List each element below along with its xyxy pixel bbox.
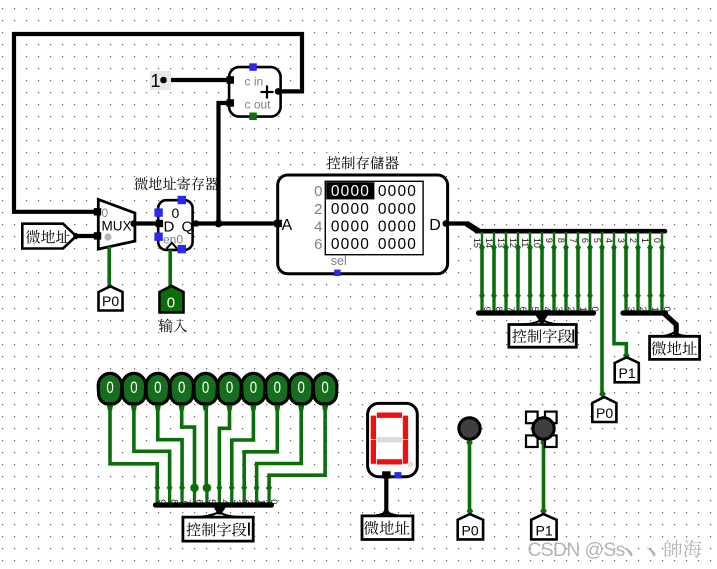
svg-text:0000: 0000: [331, 236, 370, 253]
svg-text:0: 0: [106, 379, 113, 398]
svg-text:0: 0: [314, 183, 322, 200]
svg-text:0: 0: [130, 379, 137, 398]
svg-text:0: 0: [298, 379, 305, 398]
svg-text:0: 0: [202, 379, 209, 398]
svg-text:1: 1: [150, 71, 160, 91]
svg-text:4: 4: [542, 307, 552, 312]
svg-text:1: 1: [640, 238, 650, 243]
svg-text:0000: 0000: [331, 201, 370, 218]
svg-text:3: 3: [616, 238, 626, 243]
svg-text:8: 8: [494, 307, 504, 312]
svg-text:CSDN @Ss: CSDN @Ss: [528, 540, 625, 561]
svg-text:2: 2: [638, 307, 648, 312]
svg-text:6: 6: [518, 307, 528, 312]
svg-text:7: 7: [506, 307, 516, 312]
svg-text:1: 1: [650, 307, 660, 312]
svg-text:0: 0: [226, 379, 233, 398]
svg-text:0000: 0000: [378, 183, 417, 200]
svg-text:0: 0: [321, 379, 328, 398]
svg-text:0: 0: [178, 379, 185, 398]
svg-text:c out: c out: [245, 98, 272, 112]
svg-text:0: 0: [154, 379, 161, 398]
svg-text:P0: P0: [462, 523, 479, 539]
svg-text:4: 4: [314, 219, 322, 236]
svg-text:0000: 0000: [331, 183, 370, 200]
svg-text:0: 0: [662, 307, 672, 312]
svg-text:0: 0: [274, 379, 281, 398]
svg-text:9: 9: [482, 307, 492, 312]
svg-text:Q: Q: [182, 219, 194, 236]
svg-text:0000: 0000: [331, 219, 370, 236]
svg-text:7: 7: [568, 238, 578, 243]
svg-text:4: 4: [604, 238, 614, 243]
svg-text:0000: 0000: [378, 201, 417, 218]
svg-text:0: 0: [167, 295, 175, 312]
svg-text:5: 5: [592, 238, 602, 243]
svg-text:5: 5: [530, 307, 540, 312]
svg-text:2: 2: [314, 201, 322, 218]
svg-text:9: 9: [544, 238, 554, 243]
svg-text:1: 1: [578, 307, 588, 312]
svg-text:0000: 0000: [378, 219, 417, 236]
svg-text:P1: P1: [619, 365, 636, 381]
svg-text:0000: 0000: [378, 236, 417, 253]
svg-text:0: 0: [590, 307, 600, 312]
svg-text:P1: P1: [536, 523, 553, 539]
svg-text:0: 0: [652, 238, 662, 243]
svg-text:MUX: MUX: [102, 219, 132, 234]
svg-text:sel: sel: [331, 254, 347, 268]
svg-text:c in: c in: [245, 75, 264, 89]
svg-text:D: D: [429, 217, 441, 234]
svg-text:2: 2: [566, 307, 576, 312]
svg-text:8: 8: [556, 238, 566, 243]
svg-text:2: 2: [628, 238, 638, 243]
svg-text:3: 3: [554, 307, 564, 312]
svg-text:P0: P0: [102, 293, 119, 309]
svg-text:P0: P0: [596, 405, 613, 421]
svg-text:0: 0: [250, 379, 257, 398]
svg-text:3: 3: [626, 307, 636, 312]
svg-text:6: 6: [580, 238, 590, 243]
svg-text:A: A: [282, 217, 293, 234]
svg-text:6: 6: [314, 236, 322, 253]
